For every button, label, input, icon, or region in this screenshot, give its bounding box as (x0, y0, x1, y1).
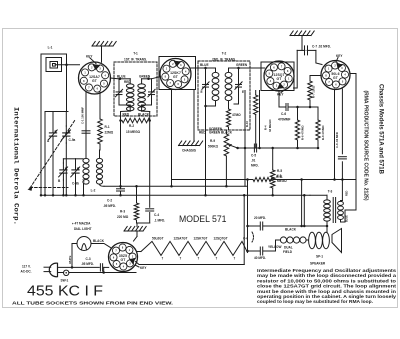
variable capacitor C-9a (65, 112, 67, 127)
node T-2 blue (204, 67, 207, 70)
transformer T-2 dashed box (198, 61, 250, 130)
svg-text:40 MFD.: 40 MFD. (254, 256, 266, 260)
heater string sawtooth (141, 241, 248, 255)
svg-text:BLUE: BLUE (200, 63, 209, 67)
svg-text:♦ 4T MAZDA: ♦ 4T MAZDA (72, 222, 91, 226)
svg-text:KEY: KEY (277, 93, 284, 97)
svg-text:SCREEN: SCREEN (209, 127, 223, 131)
svg-text:C-1 100 MMF: C-1 100 MMF (81, 107, 85, 124)
speaker field coil (275, 240, 277, 251)
svg-text:C-9a: C-9a (69, 138, 76, 142)
wire V2 cathode down (171, 89, 173, 186)
ground (12SA7 shield) (92, 45, 113, 47)
svg-text:R-1: R-1 (105, 125, 110, 129)
speaker cone SP-1 (332, 229, 342, 253)
bus B+ upper (172, 179, 254, 181)
svg-text:L-1: L-1 (48, 46, 53, 50)
svg-text:C-4: C-4 (154, 213, 159, 217)
svg-text:12SQ7GT: 12SQ7GT (214, 237, 228, 241)
svg-text:33 MEGΩ: 33 MEGΩ (268, 119, 272, 132)
wire tuning cap top bus (45, 111, 68, 113)
wire V2 plate to T-2 (191, 67, 206, 69)
wire dial to V5 (91, 244, 111, 248)
svg-text:ALL TUBE SOCKETS SHOWN FRO: ALL TUBE SOCKETS SHOWN FROM PIN END VIEW… (12, 301, 173, 306)
capacitor 40 MFD (248, 250, 260, 252)
svg-text:MODEL 571: MODEL 571 (179, 214, 227, 224)
resistor R-2 15 Megohm (122, 118, 150, 123)
svg-text:12SA7GT: 12SA7GT (174, 237, 188, 241)
wire T-1 black down (149, 112, 151, 208)
svg-text:GT: GT (121, 258, 127, 262)
wire V1 plate to T-1 (110, 77, 119, 80)
svg-text:1ST. IF. TRANS.: 1ST. IF. TRANS. (124, 58, 147, 62)
svg-text:FIELD: FIELD (283, 250, 293, 254)
ground (R-3/C-4) (136, 223, 138, 227)
tuning gang dashed link (30, 120, 75, 188)
svg-text:220 MΩ: 220 MΩ (117, 215, 129, 219)
svg-text:E: E (242, 90, 244, 94)
svg-text:coupled to loop may be substit: coupled to loop may be substituted for R… (257, 299, 373, 304)
svg-text:SW-1: SW-1 (61, 279, 69, 283)
svg-text:DUAL: DUAL (284, 246, 293, 250)
svg-text:12SK7GT: 12SK7GT (194, 237, 208, 241)
svg-text:T-1: T-1 (133, 52, 138, 56)
wire V4 cathode down (334, 89, 336, 180)
svg-text:(RMA PRODUCTION SOURCE CODE No: (RMA PRODUCTION SOURCE CODE No. 2125) (363, 91, 369, 201)
capacitor 20 MFD (248, 225, 260, 227)
resistor R-3 220 Mohm (136, 186, 138, 203)
svg-text:C-7 .02 MFD.: C-7 .02 MFD. (312, 45, 331, 49)
svg-text:RED: RED (123, 112, 130, 116)
wire T-2 left leg down (205, 128, 207, 195)
wire T-2 to V3 grid (239, 67, 265, 69)
node T-2 green (237, 67, 240, 70)
dial lamp (77, 237, 91, 251)
wire V3 cathode down (278, 91, 280, 107)
resistor R-11 inline (253, 177, 273, 181)
capacitor C-4 .1 MFD (146, 208, 154, 210)
svg-text:R-11: R-11 (276, 175, 283, 179)
svg-text:GREEN: GREEN (209, 131, 221, 135)
capacitor C-7 .02 MFD (304, 46, 306, 55)
tube V2 12SK7 GT (160, 59, 191, 90)
wire bias bus (238, 147, 318, 149)
svg-text:2ND. IF. TRANS.: 2ND. IF. TRANS. (212, 58, 236, 62)
wire L-2 tops (85, 150, 87, 158)
svg-text:GREEN: GREEN (236, 63, 248, 67)
T-2 secondary trimmer (238, 80, 240, 84)
wire V5 plate right (137, 251, 141, 253)
svg-text:455 KC I F: 455 KC I F (27, 284, 103, 300)
wire L-2 bottoms (83, 184, 85, 195)
wire gang left leg (44, 112, 46, 196)
svg-text:R-9: R-9 (210, 139, 215, 143)
capacitor C-5 .01 MFD (253, 144, 255, 152)
T-2 internal wires (205, 68, 207, 80)
resistor R-9 500K volume control (225, 130, 227, 134)
ground CHASSIS (193, 90, 195, 142)
svg-text:BLACK: BLACK (93, 239, 105, 243)
svg-text:C-8 .02 MFD: C-8 .02 MFD (335, 132, 339, 148)
wire AC bus up (243, 195, 245, 264)
tube V3 12SQ7 GT (264, 61, 294, 91)
svg-text:.01: .01 (251, 159, 256, 163)
resistor R-8 470 Mohm (317, 107, 319, 120)
capacitor C-1 100 MMF (82, 130, 90, 132)
resistor R-6 470 Mohm (297, 107, 299, 120)
resistor R-1 22 Mohm (99, 92, 101, 119)
svg-text:Chassis Models 571A and 571B: Chassis Models 571A and 571B (378, 84, 385, 174)
svg-text:50L6GT: 50L6GT (152, 237, 164, 241)
svg-text:.05 MFD.: .05 MFD. (81, 262, 94, 266)
paragraph: alignment notes (257, 268, 397, 304)
svg-text:500KΩ: 500KΩ (208, 145, 219, 149)
svg-text:DIAL LIGHT: DIAL LIGHT (74, 227, 92, 231)
wire V4 screen right (345, 74, 356, 211)
svg-text:KEY: KEY (140, 266, 147, 270)
svg-text:SP-1: SP-1 (316, 255, 323, 259)
svg-text:C-2: C-2 (107, 199, 112, 203)
resistor 47 Mohm inside T-2 (228, 104, 230, 109)
svg-text:CHASSIS: CHASSIS (182, 149, 196, 153)
wire C-5 to R-5 (258, 147, 274, 149)
svg-text:22MΩ: 22MΩ (105, 131, 114, 135)
svg-text:International Detrola Corp.: International Detrola Corp. (13, 107, 20, 225)
svg-text:C-6: C-6 (243, 237, 248, 241)
variable capacitor C-9b (75, 159, 77, 163)
resistor R-4 33 Megohm (255, 91, 257, 96)
wire osc cap top bus (63, 158, 75, 160)
svg-text:WHITE: WHITE (68, 255, 72, 264)
svg-text:7: 7 (162, 257, 164, 261)
T-1 primary trimmer (118, 87, 120, 92)
wire wiper to C-5 (238, 147, 254, 149)
wire field to voice coil (306, 239, 308, 241)
svg-text:R-8 470MΩ: R-8 470MΩ (321, 125, 325, 140)
svg-text:T-2: T-2 (222, 52, 227, 56)
capacitor C-6 470 MMF (279, 106, 285, 108)
svg-text:7: 7 (216, 257, 218, 261)
switch SW-1 (58, 272, 64, 274)
wire T-1 red down (120, 112, 122, 187)
svg-text:R-10: R-10 (245, 120, 249, 127)
tube V1 12SA7 GT (79, 62, 111, 94)
wire V3 grid AVC (259, 91, 261, 149)
svg-text:E: E (201, 90, 203, 94)
variable capacitor B (62, 159, 64, 163)
svg-text:SPEAKER: SPEAKER (310, 262, 326, 266)
tube V4 50L6 GT (321, 61, 350, 90)
T-1 secondary winding (138, 84, 146, 88)
svg-text:117 V.: 117 V. (22, 265, 31, 269)
wire L-1 to 12SA7 grid (55, 64, 79, 66)
svg-text:AC-DC.: AC-DC. (21, 270, 32, 274)
bus B- lower (41, 194, 310, 196)
loop antenna L-1 (41, 54, 67, 195)
svg-text:MFD.: MFD. (251, 164, 259, 168)
T-1 internal wires (129, 79, 131, 84)
T-2 secondary winding (225, 72, 232, 77)
bus B+ upper right (273, 179, 356, 181)
svg-text:KEY: KEY (336, 54, 343, 58)
wire C-7 left to V3 plate (297, 49, 305, 51)
svg-text:C-3: C-3 (86, 257, 91, 261)
T-2 primary winding (212, 72, 219, 77)
svg-text:47MΩ: 47MΩ (232, 113, 241, 117)
svg-text:R-6 470MΩ: R-6 470MΩ (301, 125, 305, 140)
wire filter caps feed (247, 226, 249, 253)
svg-text:T-3: T-3 (328, 190, 333, 194)
resistor R-7 150 ohm (309, 76, 311, 82)
ground (C-7) (290, 35, 311, 37)
wire T-1 to V2 grid (152, 77, 161, 79)
svg-text:.1 MFD.: .1 MFD. (154, 219, 165, 223)
R-9 wiper arrow (230, 145, 238, 148)
transformer T-1 dashed box (114, 62, 157, 116)
T-2 primary trimmer (205, 80, 207, 84)
capacitor C-2 .05 MFD (117, 188, 125, 190)
svg-text:15 MEGΩ: 15 MEGΩ (126, 130, 141, 134)
oscillator coil L-2 (83, 158, 89, 163)
wire V1 cathode down (85, 92, 87, 151)
svg-text:7: 7 (234, 257, 236, 261)
svg-text:C-6: C-6 (281, 112, 286, 116)
svg-text:G-0: G-0 (82, 178, 86, 183)
svg-text:7: 7 (198, 257, 200, 261)
wire heater right end up (247, 180, 249, 253)
shield around V3 (261, 62, 294, 91)
svg-text:BLUE: BLUE (117, 75, 126, 79)
svg-text:GT: GT (92, 79, 98, 83)
tube V5 35Z5 GT (109, 243, 138, 272)
AC plug (49, 263, 57, 277)
wire C-7 right to 50L6 grid (307, 49, 316, 51)
svg-text:470MMF: 470MMF (278, 118, 290, 122)
T-1 secondary trimmer (151, 87, 153, 92)
svg-text:GT: GT (173, 75, 179, 79)
bus AVC middle (104, 185, 248, 187)
wire speaker top feed (301, 180, 303, 227)
wire V5 bottom to AC bus (136, 262, 245, 265)
resistor R-5 6.8 Megohm (272, 148, 274, 170)
svg-text:R-3: R-3 (120, 210, 125, 214)
wire R-10 from V3 (244, 91, 246, 187)
svg-text:BLACK: BLACK (138, 112, 150, 116)
svg-text:GT: GT (333, 76, 339, 80)
svg-text:20 MFD.: 20 MFD. (254, 216, 266, 220)
wire plug to C-3 (58, 266, 100, 268)
svg-text:R-5: R-5 (277, 169, 282, 173)
svg-text:7: 7 (180, 257, 182, 261)
shield around V2 (159, 57, 196, 90)
T-3 connections (326, 195, 328, 199)
svg-text:BLUE: BLUE (346, 215, 349, 222)
svg-text:BLACK: BLACK (285, 228, 297, 232)
variable capacitor A (52, 112, 54, 127)
wire dial left down (72, 243, 77, 245)
svg-text:YELLOW: YELLOW (268, 245, 281, 249)
wire V4 plate down with C-8 (341, 89, 343, 154)
wire caps B down to bus (62, 180, 64, 195)
svg-text:C-5: C-5 (251, 154, 256, 158)
svg-text:R-2: R-2 (129, 124, 134, 128)
svg-text:R-7 150Ω: R-7 150Ω (312, 85, 316, 98)
wire caps A down to bus (52, 143, 54, 195)
svg-text:L-2: L-2 (91, 189, 96, 193)
speaker voice coil (309, 232, 316, 248)
capacitor C-8 .02 MFD (338, 156, 346, 158)
svg-text:RED: RED (346, 191, 349, 196)
svg-text:GT: GT (277, 77, 283, 81)
T-1 primary winding (126, 84, 134, 88)
svg-text:.05 MFD.: .05 MFD. (103, 204, 116, 208)
